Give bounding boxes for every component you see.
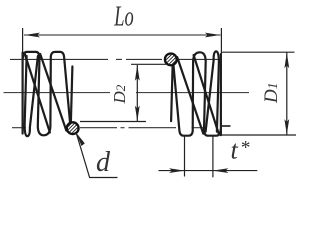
- svg-text:D1: D1: [261, 83, 282, 104]
- dimension D1: extension lines: [222, 51, 295, 53]
- dimension L0: left arrow: [25, 33, 41, 38]
- dimension D2: up arrow: [135, 65, 140, 81]
- svg-text:Lo: Lo: [113, 2, 133, 33]
- dimension D1: up arrow: [284, 53, 289, 68]
- dimension D2: extension lines: [131, 63, 166, 65]
- dimension D2: dimension line: [136, 65, 138, 121]
- end coil narrow loop: [25, 56, 38, 136]
- right end bottom stub: [221, 125, 231, 127]
- spring left section (wire): [23, 52, 73, 136]
- spring right section: 180deg rotation of left section: [165, 51, 221, 135]
- dimension D1: dimension line: [286, 53, 288, 135]
- svg-text:d: d: [96, 147, 111, 178]
- dimension t*: dimension line: [159, 170, 258, 172]
- svg-text:*: *: [240, 138, 250, 159]
- back diagonal 1: [25, 54, 50, 133]
- wire cross-section circle (right): [165, 54, 177, 66]
- svg-text:D2: D2: [110, 84, 129, 104]
- dimension t*: extension lines: [184, 135, 186, 177]
- wire cross-section circle (left): [67, 122, 79, 134]
- top coil centerline (dash-dot): [10, 58, 221, 60]
- leader for d: arrow at wire section: [76, 133, 117, 178]
- dimension D1: down arrow: [284, 119, 289, 135]
- dimension L0: extension lines: [22, 28, 24, 134]
- svg-text:t: t: [231, 136, 239, 165]
- bottom coil centerline (dash-dot): [12, 127, 204, 129]
- dimension L0: right arrow: [205, 33, 221, 38]
- dimension D2: down arrow: [135, 106, 140, 122]
- spring axis centerline: [4, 92, 111, 94]
- dimension L0: dimension line: [24, 34, 221, 36]
- dimension t*: left arrow (outside, pointing right): [169, 168, 185, 173]
- coil hump 1 and front wire to cut end: [23, 52, 70, 135]
- dimension t*: right arrow (outside, pointing left): [213, 168, 229, 173]
- back line above cut end: [71, 67, 73, 122]
- ground end edge: [22, 53, 24, 134]
- back diagonal 2: [40, 54, 66, 131]
